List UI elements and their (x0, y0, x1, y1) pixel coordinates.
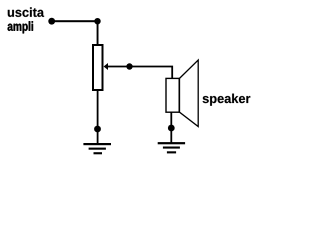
speaker LS1 driver body (166, 78, 179, 112)
wire: potentiometer bottom to ground (97, 90, 99, 144)
node: wiper junction dot (126, 63, 132, 69)
potentiometer R1 wiper arrowhead (104, 63, 108, 70)
label "uscita ampli" (amplifier output) (8, 7, 45, 33)
ground (below speaker) (158, 142, 185, 153)
label "speaker" (203, 94, 251, 106)
node: junction dot on speaker ground lead (168, 125, 175, 132)
speaker LS1 cone (180, 60, 199, 127)
potentiometer R1 body (93, 45, 103, 90)
node: junction dot on pot ground lead (94, 126, 101, 133)
wire: input terminal to top junction (52, 20, 98, 22)
wire: junction down to potentiometer top (97, 21, 99, 44)
ground (below potentiometer) (83, 143, 111, 154)
wire: wiper to speaker (horizontal then down) (108, 67, 173, 79)
node: input terminal dot (48, 18, 55, 25)
wire: speaker bottom to ground (170, 112, 172, 142)
node: top junction dot (94, 18, 100, 24)
